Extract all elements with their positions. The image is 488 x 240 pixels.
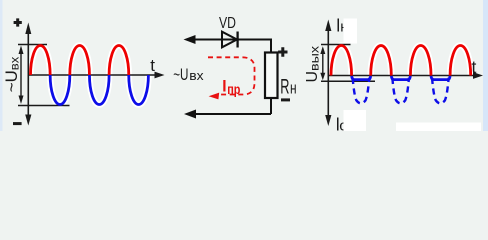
white patch over In label: [344, 19, 358, 44]
left axis down arrowhead: [25, 115, 31, 126]
top wire left arrowhead: [184, 35, 196, 44]
forward current dashed red loop: [208, 57, 255, 94]
diode VD: [222, 32, 237, 48]
left page edge stripe: [0, 0, 3, 131]
-Um amplitude line: [18, 105, 70, 107]
minus sign at resistor bottom: [281, 98, 290, 101]
right graph t-axis: [328, 75, 474, 77]
top amplitude line: [321, 44, 351, 46]
Uvx amplitude double-arrow shaft: [20, 52, 22, 98]
lower level line: [321, 80, 375, 82]
blue zero-level segments between pulses: [352, 76, 451, 80]
Uvyx amp arrow up head: [320, 46, 325, 54]
right axis down arrowhead: [325, 115, 331, 126]
output red half-wave pulses: [331, 45, 471, 75]
white halo under input sine: [31, 45, 149, 104]
white patch bottom strip: [396, 123, 481, 132]
t-axis arrowhead: [155, 72, 165, 79]
top wire: [193, 39, 271, 41]
wire corner down to resistor: [270, 39, 272, 53]
bottom wire left arrowhead: [184, 110, 196, 119]
white patch right of Ic: [344, 110, 367, 131]
minus sign bottom left: [13, 122, 22, 125]
wire from resistor bottom: [194, 98, 271, 114]
svg-text:Rн: Rн: [280, 75, 296, 98]
white halo under output humps: [331, 45, 471, 75]
right graph vertical axis: [327, 29, 329, 117]
plus sign top left: [14, 18, 22, 26]
right axis up arrowhead: [325, 20, 331, 32]
red arrowhead Ipr: [209, 93, 220, 100]
left graph vertical axis: [27, 31, 29, 116]
diode cathode bar: [236, 32, 238, 48]
Uvx amp arrow up head: [19, 46, 24, 55]
+Um amplitude line: [18, 44, 47, 46]
svg-text:~Uвх: ~Uвх: [173, 66, 204, 84]
input sine negative half-waves (blue): [50, 75, 148, 105]
plus sign at resistor top: [278, 47, 287, 56]
blue dashed suppressed half-waves: [353, 78, 449, 104]
input sine positive half-waves (red): [31, 45, 129, 75]
right t-axis arrowhead: [473, 72, 483, 79]
left graph t-axis: [28, 74, 156, 76]
svg-text:t: t: [472, 57, 477, 77]
left axis up arrowhead: [25, 23, 31, 35]
Uvx amp arrow down head: [19, 96, 24, 105]
Uvyx amp arrow down head: [320, 73, 325, 81]
Uvyx amplitude double-arrow shaft: [322, 52, 324, 74]
resistor Rn body: [265, 53, 278, 99]
svg-text:t: t: [150, 56, 155, 75]
svg-text:VD: VD: [219, 15, 236, 32]
right page edge stripe: [483, 0, 488, 131]
